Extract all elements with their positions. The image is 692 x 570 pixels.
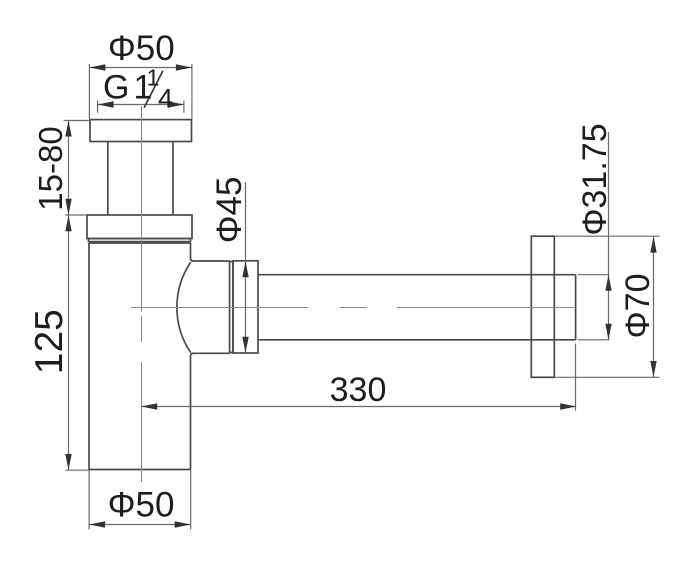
svg-text:4: 4 (158, 84, 173, 114)
svg-text:15-80: 15-80 (32, 126, 69, 210)
svg-text:G: G (103, 69, 129, 107)
svg-text:330: 330 (330, 371, 387, 409)
svg-text:Φ31.75: Φ31.75 (576, 123, 614, 235)
svg-text:Φ45: Φ45 (210, 177, 249, 244)
svg-text:125: 125 (28, 309, 71, 374)
svg-text:Φ70: Φ70 (619, 274, 657, 339)
svg-text:Φ50: Φ50 (108, 486, 175, 525)
svg-text:Φ50: Φ50 (108, 29, 175, 68)
